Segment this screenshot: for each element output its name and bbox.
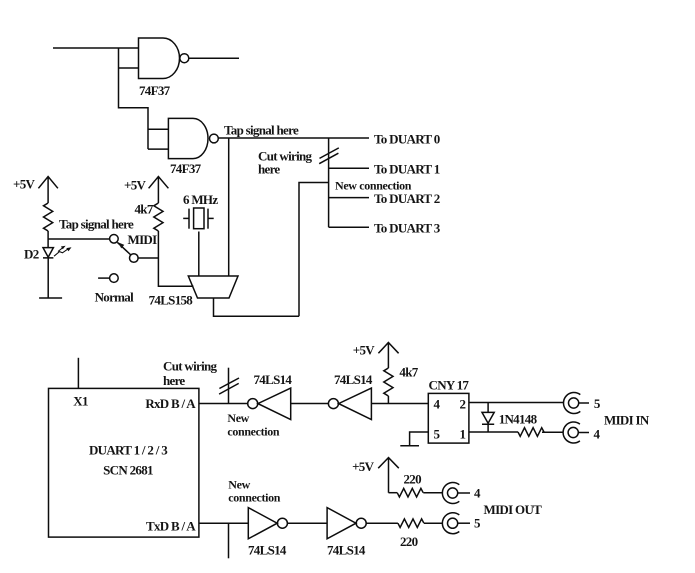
wire old RxD (cut) [228,368,230,404]
svg-text:1N4148: 1N4148 [499,412,538,427]
wire +5V to resistor [389,492,398,494]
wire U1a output [189,57,239,59]
resistor R3 (MIDI IN) [518,428,544,437]
ground (LED) [39,297,62,299]
svg-text:74LS14: 74LS14 [327,543,366,558]
svg-text:220: 220 [400,534,418,549]
wire switch to 4k7 line [138,257,158,259]
diode D1 1N4148 [482,403,494,433]
svg-text:+5V: +5V [352,459,375,474]
cut mark (bus) [319,148,339,164]
svg-text:connection: connection [227,425,280,439]
svg-text:CNY 17: CNY 17 [429,378,470,393]
wire tap down to 74LS158 [228,138,230,276]
wire resistor to MIDI OUT 5 [424,522,442,524]
power +5V (RxD pullup) [378,343,398,369]
switch S1 pole MIDI [110,235,119,244]
label New connection (TxD) [228,478,281,505]
wire gate U1a input 2 [119,67,139,69]
multiplexer U3 74LS158 [188,276,238,298]
svg-text:here: here [163,373,185,388]
wire X1 stub [77,358,79,389]
wire pin2 to MIDI IN 5 [469,402,563,404]
svg-text:+5V: +5V [124,178,147,193]
svg-text:MIDI IN: MIDI IN [604,413,650,428]
svg-text:74LS14: 74LS14 [334,372,373,387]
svg-text:Tap signal here: Tap signal here [224,123,299,138]
svg-text:Normal: Normal [95,290,134,305]
connector MIDI IN pin 4 [563,422,589,443]
connector MIDI OUT pin 4 [442,483,470,504]
wire to DUART 3 [329,226,369,228]
svg-text:+5V: +5V [353,343,376,358]
resistor 4k7 R2 [154,203,163,231]
svg-text:New: New [228,478,250,492]
svg-text:New connection: New connection [335,179,412,193]
wire new connection (TxD) [228,523,230,558]
svg-text:New: New [227,411,249,425]
resistor (LED branch) [44,203,53,231]
wire pin1 to resistor [469,431,518,433]
svg-text:DUART 1 / 2 / 3: DUART 1 / 2 / 3 [89,443,168,458]
wire vertical from U1a inputs down [119,48,149,149]
inverter U4b 74LS14 [328,388,371,419]
wire to DUART 2 [329,197,369,199]
wire RxD to inverter [199,403,248,405]
label Cut wiring here (RxD) [163,359,218,389]
LED D2 [43,231,72,298]
svg-text:To DUART 2: To DUART 2 [374,191,440,206]
NAND gate U1a 74F37 [139,38,189,79]
wire mux output to new connection [214,298,300,316]
switch S1 throw contact [130,254,139,263]
connector MIDI IN pin 5 [563,393,589,414]
svg-text:74F37: 74F37 [139,83,171,98]
wire new connection to bus [299,183,329,317]
wire inverter to CNY17 [371,403,428,405]
svg-text:220: 220 [404,472,422,487]
inverter U4a 74LS14 [248,388,291,419]
wire tap to switch [48,238,110,240]
svg-text:6 MHz: 6 MHz [183,192,218,207]
power +5V (LED branch) [38,177,58,204]
wire resistor to MIDI IN 4 [542,431,563,433]
wire U2a input stub 1 [148,128,168,130]
svg-text:74F37: 74F37 [170,161,202,176]
wire 4k7 down to mux [158,231,193,286]
svg-text:connection: connection [228,491,281,505]
svg-text:X1: X1 [73,394,88,409]
svg-text:To DUART 3: To DUART 3 [374,221,441,236]
svg-text:SCN 2681: SCN 2681 [103,463,153,478]
connector MIDI OUT pin 5 [442,513,470,534]
svg-text:74LS14: 74LS14 [254,372,293,387]
power +5V (4k7 branch) [149,177,169,204]
label Cut wiring here (bus) [258,149,313,177]
resistor 4k7 (RxD pullup) [384,368,393,396]
svg-text:To DUART 1: To DUART 1 [374,162,440,177]
inverter U4d 74LS14 [327,508,366,539]
wire pin5 to ground [410,432,429,446]
power +5V (MIDI OUT) [378,458,399,493]
wire U2a output to DUART 0 [218,137,369,139]
svg-text:To DUART 0: To DUART 0 [374,132,440,147]
wire between inverters [291,403,329,405]
ground (CNY17) [400,445,419,447]
svg-text:MIDI: MIDI [128,232,158,247]
wire resistor to MIDI OUT 4 [423,492,442,494]
switch contact Normal [110,274,119,283]
wire TxD to inverter [199,522,248,524]
resistor 220 (MIDI OUT 5) [398,519,424,528]
wire pullup to RxD line [387,396,389,404]
svg-text:RxD B / A: RxD B / A [145,396,196,411]
resistor 220 (MIDI OUT 4) [397,488,423,497]
label New connection (RxD) [227,411,280,439]
svg-text:TxD B / A: TxD B / A [146,519,196,534]
svg-text:4k7: 4k7 [135,202,154,217]
cut mark (RxD) [219,378,239,394]
svg-text:2: 2 [460,397,466,412]
wire inverter to resistor [366,522,398,524]
optocoupler U5 CNY 17 [428,393,469,443]
svg-text:Cut wiring: Cut wiring [163,359,218,374]
inverter U4c 74LS14 [248,508,287,539]
svg-text:MIDI OUT: MIDI OUT [484,502,543,517]
svg-text:1: 1 [460,426,466,441]
svg-text:74LS14: 74LS14 [248,543,287,558]
svg-text:4k7: 4k7 [399,365,418,380]
svg-text:+5V: +5V [13,177,36,192]
wire crystal to mux [198,232,200,277]
svg-text:74LS158: 74LS158 [149,293,194,308]
wire U2a input stub 2 [148,148,168,150]
wire Normal stub [98,277,110,279]
NAND gate U2a 74F37 [168,118,218,158]
wire to DUART 1 [329,167,369,169]
svg-text:here: here [258,162,280,177]
switch S1 lever [117,242,130,255]
svg-text:D2: D2 [24,247,39,262]
wire input to gate U1a [53,47,139,49]
crystal 6 MHz [183,208,214,229]
wire bus vertical [328,138,330,227]
IC DUART box SCN2681 [49,388,199,537]
svg-text:Tap signal here: Tap signal here [59,217,134,232]
wire between TxD inverters [288,522,328,524]
